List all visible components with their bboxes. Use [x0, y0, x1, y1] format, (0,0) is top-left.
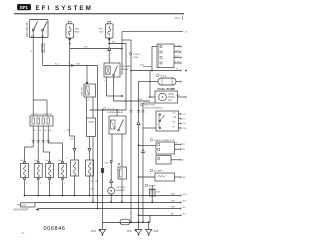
svg-text:W-B: W-B [127, 230, 132, 233]
svg-text:OPENING RELAY: OPENING RELAY [107, 111, 124, 114]
svg-text:VSV: VSV [105, 163, 110, 165]
check connector pin wires [174, 45, 181, 64]
wire relay pin2 down [110, 134, 113, 188]
wire ignition AM2 down [30, 38, 33, 116]
wire relay pin 2 [114, 77, 151, 102]
cold start injector time switch TS1 [82, 84, 96, 118]
connector box B [156, 156, 185, 165]
svg-text:INJ/VSV/MTR: INJ/VSV/MTR [14, 209, 29, 212]
bus end labels above [171, 194, 176, 216]
svg-text:B-O: B-O [55, 63, 59, 65]
svg-text:W-B: W-B [171, 207, 176, 209]
svg-text:- 14 -: - 14 - [20, 232, 26, 235]
wire check connector left pin [140, 47, 157, 71]
cold start injector wire from fuse node [64, 49, 77, 161]
ground bus E02 [35, 200, 187, 203]
wire with inline connector x102.5 [101, 109, 109, 229]
resistor output wires [25, 126, 63, 162]
noise filter component [149, 185, 161, 203]
svg-text:W-B: W-B [91, 230, 96, 233]
svg-text:EFI: EFI [99, 29, 103, 31]
title badge [17, 4, 31, 10]
cold start injector CSI [67, 158, 79, 197]
EFI main relay U1 [104, 63, 131, 77]
svg-text:TIME SW: TIME SW [82, 87, 84, 96]
svg-text:W: W [176, 143, 178, 145]
wire ignition IG2 to right [43, 38, 98, 66]
A/C amplifier label [150, 169, 163, 172]
ground bus E1 [39, 207, 187, 210]
svg-text:B-R: B-R [112, 42, 116, 44]
ground bus E2 [139, 213, 187, 216]
svg-text:THROTTLE: THROTTLE [144, 105, 155, 107]
wire tick labels near bus [91, 181, 98, 189]
svg-text:A/C: A/C [183, 176, 187, 179]
svg-text:CIRCUIT: CIRCUIT [107, 109, 116, 111]
svg-text:W-B: W-B [171, 201, 176, 203]
trunk wire x131 [130, 40, 132, 223]
fuel pump M1 [149, 91, 186, 103]
ECU block outline top edge [122, 32, 188, 34]
ground G2 [127, 229, 142, 236]
circuit opening relay label [103, 108, 124, 114]
trunk wire from ECU corner down [121, 32, 131, 110]
title underline [14, 13, 184, 15]
svg-text:CHECK CONNECTOR: CHECK CONNECTOR [154, 140, 175, 142]
svg-text:006846: 006846 [44, 226, 66, 232]
svg-text:DIODE: DIODE [160, 76, 167, 78]
svg-text:RELAY: RELAY [122, 68, 130, 71]
svg-text:W-B: W-B [171, 194, 176, 196]
svg-text:B-R: B-R [84, 46, 88, 48]
svg-text:W-R: W-R [76, 63, 81, 65]
svg-text:W-B: W-B [157, 192, 162, 194]
svg-text:15A: 15A [75, 28, 79, 31]
oxygen sensor G1 [108, 187, 126, 203]
svg-text:EFI MAIN: EFI MAIN [122, 65, 132, 68]
svg-text:AM2: AM2 [75, 31, 80, 34]
svg-text:EF1: EF1 [20, 5, 28, 10]
ground bus E01 [25, 194, 188, 197]
check connector 2 box [138, 142, 186, 154]
wire trunk x97.5 [97, 66, 99, 210]
bus label INJ/VSV/MTR [14, 208, 39, 212]
ground G1 [91, 229, 106, 236]
svg-text:OXYGEN: OXYGEN [116, 187, 125, 189]
check connector 2 label [150, 139, 175, 142]
solenoid resistor R1 [30, 100, 53, 126]
wire fuse F1 to main trunk [70, 46, 123, 49]
svg-text:15A: 15A [99, 31, 103, 34]
svg-text:VTA: VTA [173, 116, 177, 119]
svg-text:1 +B: 1 +B [175, 45, 180, 47]
injector 1 [21, 160, 29, 196]
inline connector ticks [130, 110, 145, 112]
injector 2 [34, 160, 42, 196]
wire time switch feed [86, 66, 88, 85]
throttle position sensor label [140, 103, 163, 109]
wire horizontal y110 [90, 109, 127, 111]
page ref tick top right [175, 16, 183, 21]
svg-text:SENSOR: SENSOR [116, 190, 125, 192]
shield tag [17, 203, 35, 207]
svg-text:FUEL PUMP: FUEL PUMP [158, 87, 176, 91]
svg-text:C/OPN: C/OPN [133, 54, 140, 56]
svg-text:POSITION SENSOR: POSITION SENSOR [144, 107, 163, 109]
injector 4 [59, 160, 67, 196]
throttle position sensor TPS [156, 111, 179, 131]
noise filter label [145, 184, 156, 190]
trunk x138.5 [138, 82, 152, 230]
node under fuse F1 [69, 38, 71, 49]
component VSV B2 [86, 160, 94, 196]
ignition switch SW1 [27, 20, 48, 39]
svg-text:W-B: W-B [154, 230, 159, 233]
injector bottom pin labels [26, 183, 66, 185]
fuse F2 15A EFI [99, 21, 113, 40]
trunk x143.5 [142, 103, 157, 223]
wire horizontal trunk y70.5 [131, 69, 187, 72]
component box4 [118, 163, 127, 203]
svg-text:AM2: AM2 [31, 35, 35, 38]
connector pair on IG2 wire [68, 63, 73, 68]
injector 3 [46, 160, 54, 196]
svg-text:A/C AMP.: A/C AMP. [154, 170, 163, 173]
wire ground link y222 [103, 215, 151, 225]
svg-text:IG2: IG2 [41, 36, 44, 38]
svg-text:4 TE: 4 TE [175, 61, 180, 63]
injector wire connector ticks [32, 140, 50, 142]
svg-text:2 FP: 2 FP [175, 50, 180, 52]
A/C amplifier box [138, 173, 187, 181]
check connector CN1 [129, 44, 174, 68]
circuit opening relay U2 [109, 110, 126, 167]
svg-text:W-B: W-B [22, 205, 27, 207]
wire fuel pump feed [149, 71, 151, 98]
connector arrow A1 [108, 47, 113, 63]
wire relay pin to node [104, 77, 123, 97]
noise filter NF1 [152, 74, 181, 85]
node under fuse F2 [108, 38, 126, 46]
svg-text:B-R: B-R [70, 139, 74, 141]
svg-text:14-1: 14-1 [175, 16, 181, 20]
wire label B-O tag [41, 44, 45, 52]
TPS pin wires [173, 112, 188, 130]
ground stem G3 [137, 121, 150, 229]
svg-text:EFI SYSTEM: EFI SYSTEM [36, 5, 93, 12]
start injector time switch TS2 [87, 118, 96, 202]
fuse F1 15A AM2 [66, 21, 80, 40]
ground G3 [145, 230, 158, 237]
svg-text:IGNITION SW: IGNITION SW [27, 22, 29, 37]
svg-text:FUSE: FUSE [133, 57, 139, 59]
